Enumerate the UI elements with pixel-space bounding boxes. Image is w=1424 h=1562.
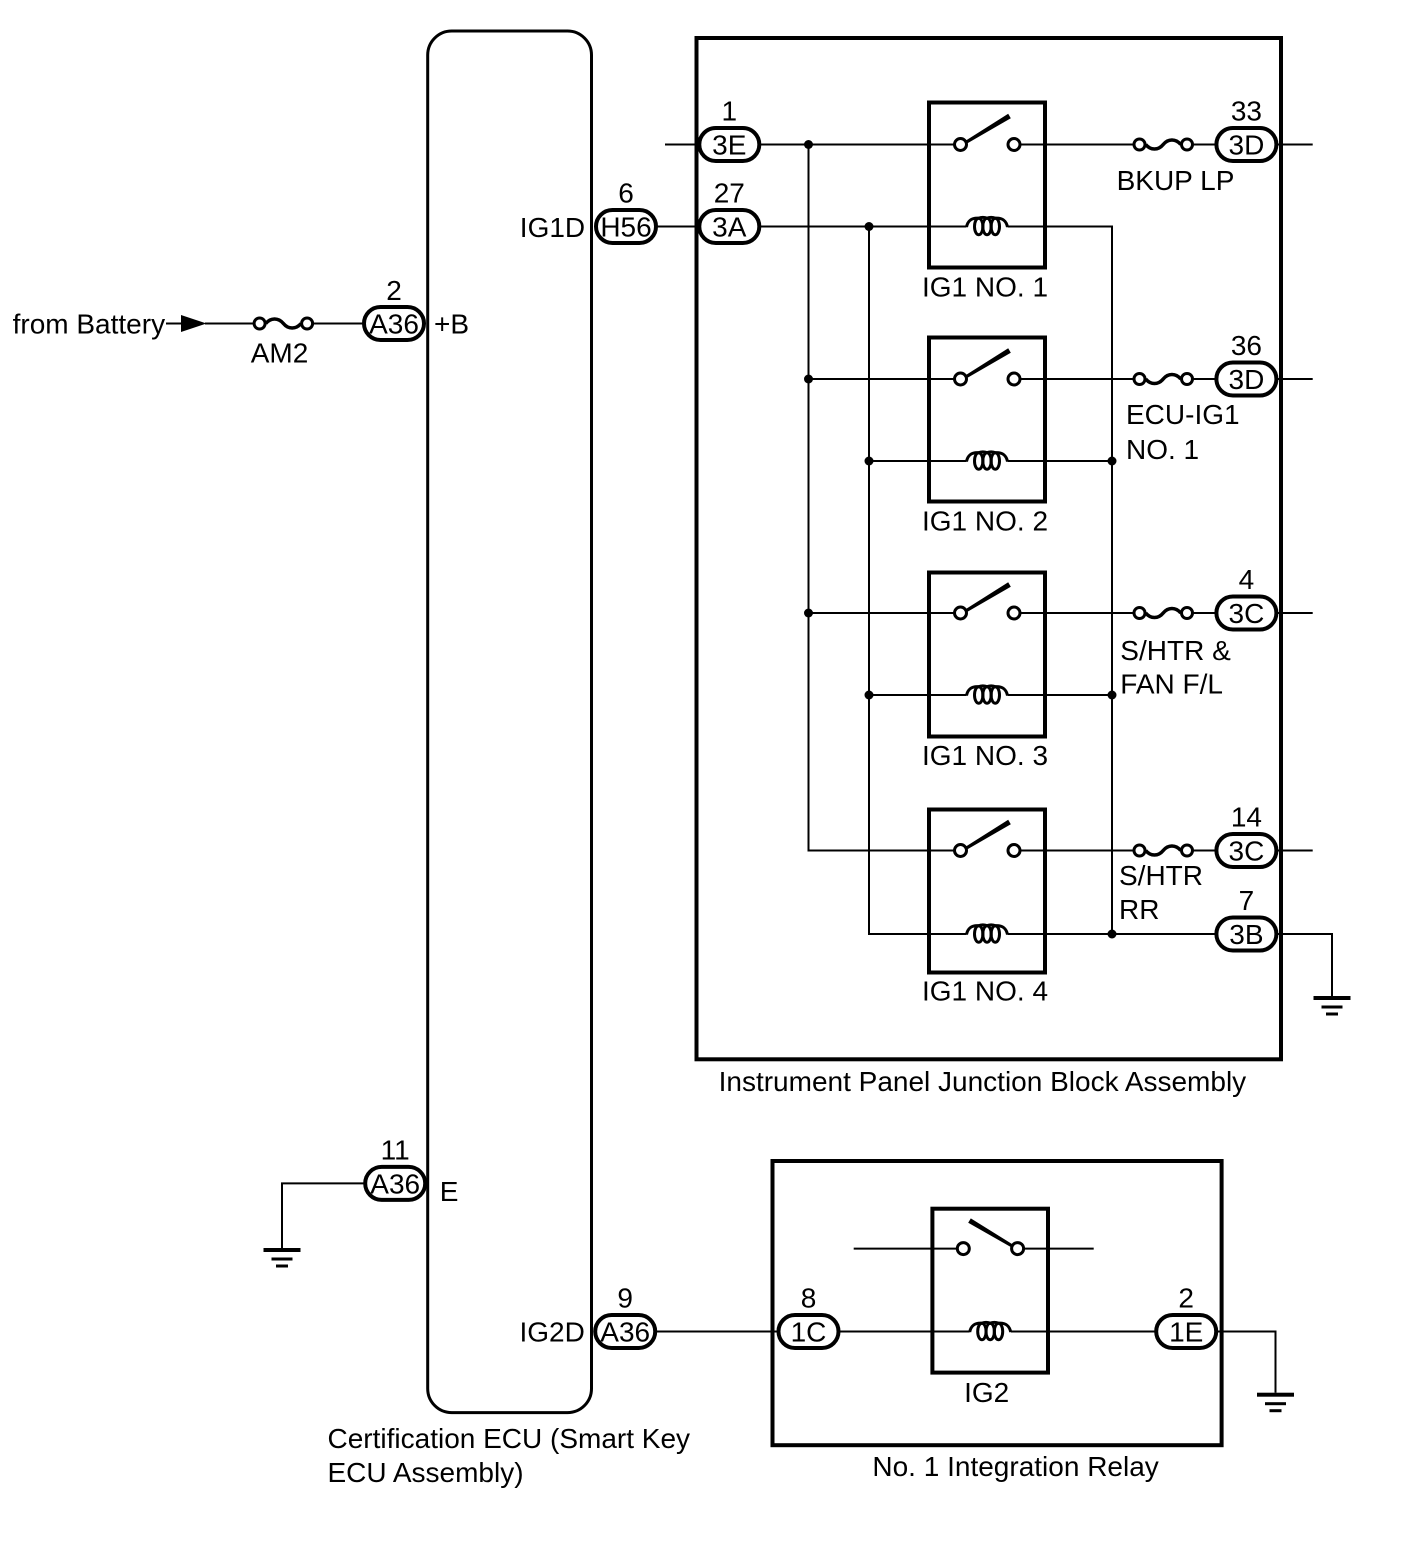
svg-text:9: 9: [617, 1283, 633, 1314]
fuse AM2: [254, 318, 313, 329]
wire stub right of 3C pin 14: [1276, 850, 1312, 852]
wire arrow to fuse AM2: [205, 323, 254, 325]
relay IG2 body: [932, 1209, 1048, 1373]
relay IG1 NO. 1 body: [929, 103, 1045, 268]
wire stub right of 3C pin 4: [1276, 612, 1312, 614]
wire switch bus to relay IG1 NO.2: [809, 378, 930, 380]
wire A36 IG2D to 1C: [655, 1331, 778, 1333]
svg-text:27: 27: [714, 178, 745, 209]
wire relay IG1 NO. 1 switch internal right: [1020, 144, 1045, 146]
connector 1E pin 2: [1156, 1315, 1216, 1348]
svg-text:No. 1 Integration Relay: No. 1 Integration Relay: [872, 1451, 1158, 1482]
connector 3E pin 1: [699, 128, 759, 161]
node coil bus row2: [865, 457, 874, 466]
svg-text:3B: 3B: [1229, 919, 1263, 950]
wire coil return to 3B: [1112, 933, 1216, 935]
svg-text:IG1D: IG1D: [520, 212, 585, 243]
fuse row 14: [1134, 845, 1193, 856]
relay IG1 NO. 3 switch blade: [966, 582, 1011, 612]
wire 3E to relay IG1 NO.1 switch: [759, 144, 929, 146]
svg-text:IG2: IG2: [964, 1377, 1009, 1408]
relay IG1 NO. 1 switch blade: [966, 114, 1011, 144]
wire stub left of 3E: [665, 144, 699, 146]
wire coil bus vertical: [869, 227, 967, 935]
relay IG1 NO. 3 switch contacts: [955, 607, 967, 619]
wire relay IG1 NO.3 coil to return bus: [1008, 694, 1113, 696]
wire relay switch to fuse row 33: [1045, 144, 1134, 146]
connector H56 pin 6: [596, 210, 656, 243]
relay IG1 NO. 4 switch contacts: [955, 845, 967, 857]
wire fuse AM2 to connector A36 pin 2: [313, 323, 365, 325]
wire A36 E to ground: [282, 1183, 365, 1248]
svg-text:33: 33: [1231, 96, 1262, 127]
connector A36 pin 2 (+B): [364, 307, 424, 340]
svg-text:from Battery: from Battery: [13, 309, 165, 340]
node coil return row2: [1108, 457, 1117, 466]
svg-text:S/HTR &: S/HTR &: [1120, 635, 1231, 666]
wire relay switch to fuse row 36: [1045, 378, 1134, 380]
svg-text:3A: 3A: [712, 212, 747, 243]
wire relay IG1 NO.2 coil to return bus: [1008, 460, 1113, 462]
Instrument Panel Junction Block Assembly body: [697, 38, 1282, 1059]
wire 3B to ground: [1276, 934, 1332, 996]
svg-text:E: E: [440, 1176, 459, 1207]
svg-text:11: 11: [381, 1134, 410, 1165]
relay IG1 NO. 4 body: [929, 810, 1045, 973]
wire fuse to connector 3D pin 36: [1193, 378, 1217, 380]
wire 1E to ground: [1216, 1332, 1275, 1393]
Certification ECU (Smart Key ECU Assembly) body: [428, 31, 592, 1413]
svg-text:S/HTR: S/HTR: [1119, 860, 1203, 891]
svg-text:3D: 3D: [1229, 130, 1265, 161]
wire switch bus to relay IG1 NO.3: [809, 612, 930, 614]
svg-text:IG2D: IG2D: [520, 1317, 585, 1348]
svg-text:3C: 3C: [1229, 836, 1265, 867]
wire 1C to IG2 coil: [839, 1331, 970, 1333]
wire stub right of 3D pin 36: [1276, 378, 1312, 380]
relay IG1 NO. 2 body: [929, 338, 1045, 502]
relay IG1 NO. 3 body: [929, 573, 1045, 737]
ground G1: [264, 1248, 301, 1268]
wire relay IG1 NO. 4 switch internal left: [929, 850, 955, 852]
svg-text:1C: 1C: [791, 1317, 827, 1348]
svg-text:2: 2: [1178, 1283, 1194, 1314]
wire IG2 switch right stub: [1024, 1248, 1094, 1250]
svg-text:IG1 NO. 3: IG1 NO. 3: [922, 740, 1048, 771]
fuse row 36: [1134, 374, 1193, 385]
svg-text:NO. 1: NO. 1: [1126, 434, 1199, 465]
wire relay IG1 NO. 2 switch internal left: [929, 378, 955, 380]
node coil return row4: [1108, 930, 1117, 939]
wire relay IG1 NO. 1 switch internal left: [929, 144, 955, 146]
wire fuse to connector 3C pin 4: [1193, 612, 1217, 614]
node switch bus row3: [804, 609, 813, 618]
wire relay switch to fuse row 14: [1045, 850, 1134, 852]
svg-text:BKUP LP: BKUP LP: [1117, 165, 1235, 196]
connector A36 pin 11 (E): [365, 1167, 425, 1200]
svg-text:1: 1: [722, 96, 738, 127]
wire coil return bus vertical: [1008, 227, 1113, 935]
svg-text:Certification ECU (Smart Key: Certification ECU (Smart Key: [328, 1423, 691, 1454]
wire fuse to connector 3C pin 14: [1193, 850, 1217, 852]
wire IG2 switch left stub: [854, 1248, 958, 1250]
relay IG1 NO. 1 switch contacts: [955, 139, 967, 151]
relay IG1 NO. 4 switch blade: [966, 820, 1011, 850]
connector 3C pin 4: [1216, 597, 1276, 630]
wire relay switch to fuse row 4: [1045, 612, 1134, 614]
wire coil bus to relay IG1 NO.3 coil: [869, 694, 967, 696]
wire H56 to 3A: [656, 226, 699, 228]
svg-text:A36: A36: [370, 1168, 420, 1199]
svg-text:FAN F/L: FAN F/L: [1120, 669, 1223, 700]
node coil return row3: [1108, 691, 1117, 700]
wire relay IG1 NO. 4 switch internal right: [1020, 850, 1045, 852]
connector 3A pin 27: [699, 210, 759, 243]
relay IG2 switch blade: [968, 1218, 1012, 1247]
label Certification ECU (Smart Key ECU Assembly): [328, 1423, 691, 1488]
node switch bus row2: [804, 375, 813, 384]
svg-text:6: 6: [618, 178, 634, 209]
connector 3C pin 14: [1216, 834, 1276, 867]
wire switch bus vertical: [809, 145, 930, 851]
svg-text:7: 7: [1239, 885, 1255, 916]
svg-text:A36: A36: [600, 1317, 650, 1348]
relay IG1 NO. 2 switch contacts: [955, 373, 967, 385]
svg-text:IG1 NO. 1: IG1 NO. 1: [922, 272, 1048, 303]
wire fuse to connector 3D pin 33: [1193, 144, 1217, 146]
wire relay IG1 NO.4 coil to return bus: [1008, 933, 1113, 935]
wire relay IG1 NO. 2 switch internal right: [1020, 378, 1045, 380]
svg-text:14: 14: [1231, 802, 1262, 833]
svg-text:ECU Assembly): ECU Assembly): [328, 1457, 524, 1488]
relay IG2 coil: [970, 1322, 1011, 1339]
connector 3D pin 33: [1216, 128, 1276, 161]
wire IG2 coil to 1E: [1011, 1331, 1156, 1333]
node switch bus top: [804, 140, 813, 149]
relay IG1 NO. 1 coil: [967, 217, 1008, 234]
connector A36 pin 9 (IG2D): [595, 1315, 655, 1348]
node coil bus row3: [865, 691, 874, 700]
wire relay IG1 NO. 3 switch internal right: [1020, 612, 1045, 614]
connector 3D pin 36: [1216, 363, 1276, 396]
connector 3B pin 7: [1216, 918, 1276, 951]
svg-text:+B: +B: [434, 309, 469, 340]
svg-text:4: 4: [1239, 564, 1255, 595]
svg-text:3C: 3C: [1229, 598, 1265, 629]
wire relay IG1 NO. 3 switch internal left: [929, 612, 955, 614]
svg-text:IG1 NO. 2: IG1 NO. 2: [922, 506, 1048, 537]
relay IG2 switch contacts: [957, 1243, 969, 1255]
svg-text:RR: RR: [1119, 894, 1159, 925]
connector 1C pin 8: [779, 1315, 839, 1348]
svg-text:ECU-IG1: ECU-IG1: [1126, 399, 1240, 430]
No. 1 Integration Relay body: [773, 1161, 1222, 1445]
relay IG1 NO. 4 coil: [967, 925, 1008, 942]
svg-text:H56: H56: [600, 212, 651, 243]
ground G3: [1257, 1393, 1294, 1413]
svg-text:1E: 1E: [1169, 1317, 1203, 1348]
fuse row 4: [1134, 608, 1193, 619]
relay IG1 NO. 2 switch blade: [966, 348, 1011, 378]
wire 3A to relay IG1 NO.1 coil: [759, 226, 966, 228]
wire coil bus to relay IG1 NO.2 coil: [869, 460, 967, 462]
arrow from Battery: [166, 315, 207, 332]
svg-text:AM2: AM2: [251, 337, 309, 368]
ground G2: [1314, 996, 1351, 1016]
node coil bus top: [865, 222, 874, 231]
wire stub right of 3D pin 33: [1276, 144, 1312, 146]
svg-text:A36: A36: [369, 309, 419, 340]
svg-text:Instrument Panel Junction Bloc: Instrument Panel Junction Block Assembly: [719, 1066, 1247, 1097]
fuse row 33: [1134, 139, 1193, 150]
relay IG1 NO. 3 coil: [967, 686, 1008, 703]
svg-text:8: 8: [801, 1283, 817, 1314]
svg-text:2: 2: [386, 275, 402, 306]
svg-text:3E: 3E: [712, 130, 746, 161]
svg-text:36: 36: [1231, 330, 1262, 361]
svg-text:IG1 NO. 4: IG1 NO. 4: [922, 976, 1048, 1007]
relay IG1 NO. 2 coil: [967, 452, 1008, 469]
svg-text:3D: 3D: [1229, 364, 1265, 395]
